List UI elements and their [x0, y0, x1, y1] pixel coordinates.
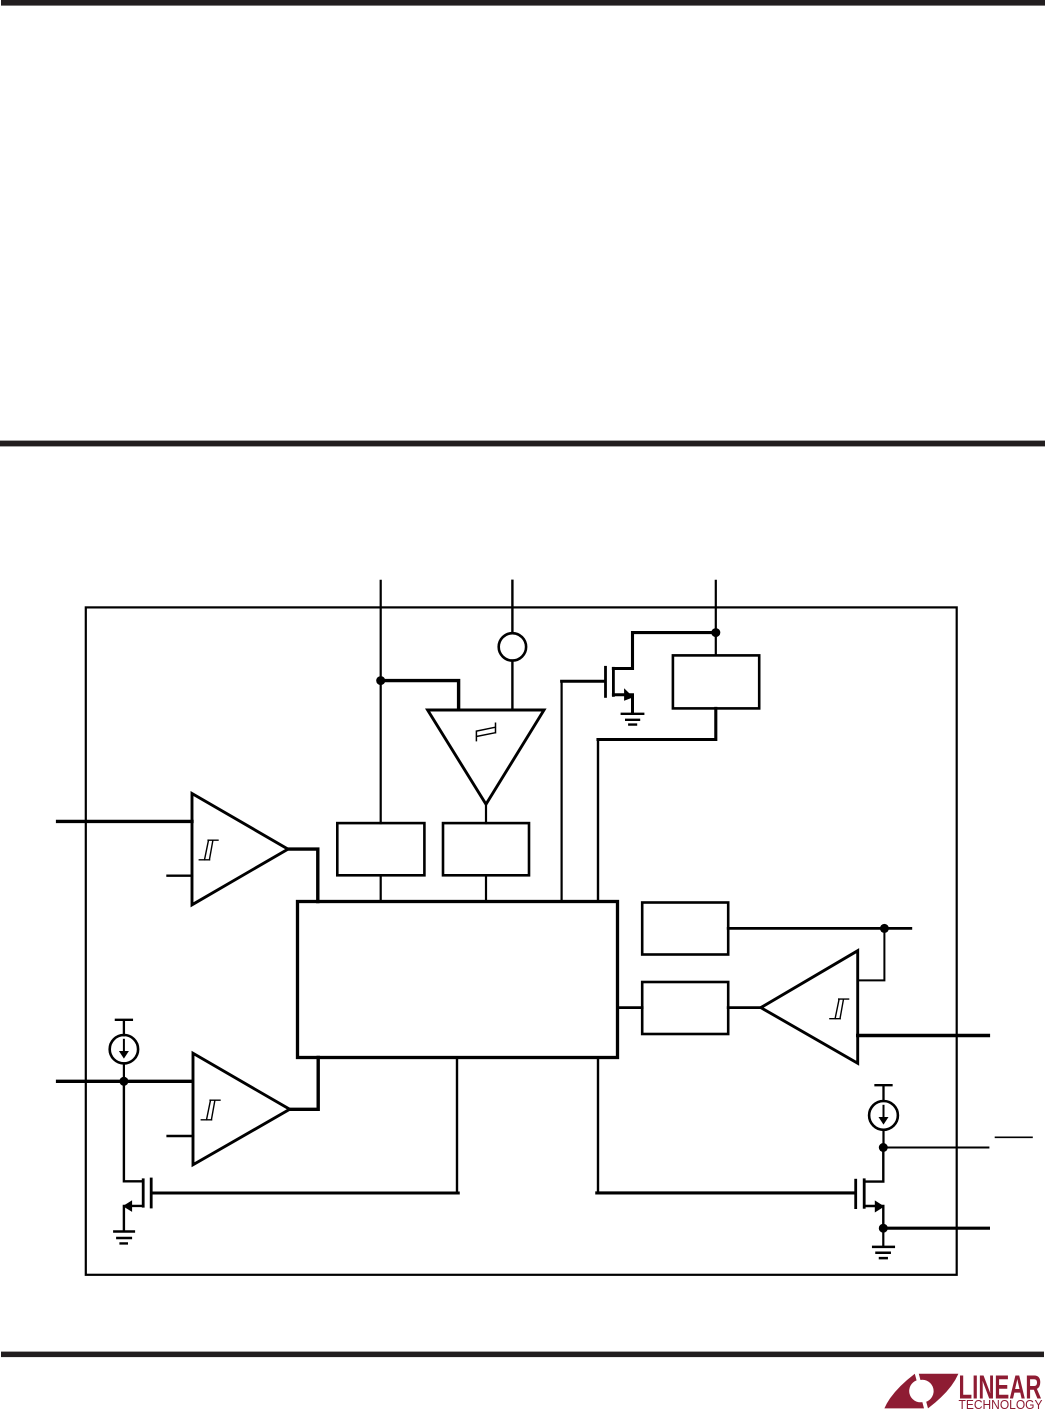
- wire: U1 output to logic box (thick): [288, 849, 318, 901]
- node: junction dot on left input net: [119, 1077, 128, 1086]
- wire: Q3 source to ground node: [864, 1206, 883, 1228]
- Q1 source arrow: [624, 688, 633, 701]
- node: junction dot I2/Q3 drain: [879, 1143, 888, 1152]
- ground (Q2 source): [114, 1232, 134, 1244]
- wire: Q2 gate lead from logic box (thick): [456, 1058, 458, 1194]
- transistor Q3 channel bar: [863, 1180, 866, 1208]
- block E (top-right box): [673, 655, 759, 708]
- transistor Q2 channel bar: [142, 1180, 145, 1206]
- wire: feedback from dot to comparator U2: [858, 928, 885, 980]
- Q2 source arrow: [123, 1200, 132, 1212]
- bias source circle on V+: [499, 633, 526, 660]
- wire: right input pin to U2 (thick): [858, 1034, 989, 1037]
- block C: [642, 903, 728, 955]
- svg-text:TECHNOLOGY: TECHNOLOGY: [959, 1398, 1044, 1410]
- transistor Q1 channel bar: [612, 668, 615, 695]
- wire: Q1 drain to pin-3 junction (thick): [613, 633, 715, 669]
- wire: logic box to Box D: [618, 1006, 643, 1009]
- wire: A1 output to Box B: [485, 804, 487, 823]
- wire: Q2 source to ground: [124, 1206, 143, 1231]
- wire: Q3 gate lead from logic box (thick): [597, 1058, 599, 1193]
- block D: [642, 982, 728, 1034]
- wire: Q1 gate lead from control net: [562, 680, 605, 683]
- transistor Q1 gate bar: [604, 667, 607, 696]
- comparator U2 (right Schmitt trigger, points left): [761, 951, 858, 1063]
- node: junction dot on pin-1 net: [376, 676, 385, 685]
- section divider rule: [0, 441, 1045, 447]
- wire: Q1 source to ground: [613, 695, 632, 713]
- node: junction dot Q3 source / pin: [879, 1224, 888, 1233]
- transistor Q2 gate bar: [150, 1179, 153, 1207]
- wire: node to right pin (thin): [883, 1147, 988, 1149]
- hysteresis symbol inside U3: [201, 1100, 220, 1120]
- wire: node down to ground: [882, 1228, 884, 1246]
- ground (Q3 source): [873, 1247, 894, 1258]
- block B: [443, 823, 529, 875]
- Q3 source arrow: [875, 1200, 885, 1212]
- wire: input pin to U1 + input (thick): [58, 820, 192, 823]
- op-amp A1 (inverting amplifier, points down): [428, 710, 544, 804]
- wire: junction dot to amplifier A1 input (thick): [381, 681, 459, 710]
- current source I2 arrow: [883, 1106, 885, 1118]
- wire: block E bottom to logic box (thick L): [598, 708, 716, 739]
- wire: Q1 gate net down to logic box: [560, 681, 562, 901]
- current source I2 circle: [869, 1101, 898, 1130]
- wire: input node down to Q2 drain: [124, 1081, 143, 1181]
- node: junction dot on pin-3 net: [711, 628, 720, 637]
- ramp symbol inside A1: [476, 723, 495, 740]
- Linear Technology logo mark (LT swoosh): [884, 1374, 958, 1409]
- wire: Box C output line (thick): [728, 927, 911, 930]
- central logic block: [298, 902, 618, 1058]
- wire: Box D to U2 output apex: [728, 1006, 761, 1009]
- wire: bias circle to amplifier A1 top: [511, 661, 513, 710]
- transistor Q3 gate bar: [854, 1180, 857, 1207]
- comparator U1 (upper-left Schmitt trigger): [192, 794, 288, 905]
- wire: node down to Q3 drain: [864, 1148, 883, 1182]
- wire: U1 inverting input stub: [168, 875, 193, 877]
- wire: Box B bottom to logic box: [485, 875, 487, 901]
- wire: I1 to input node: [123, 1063, 125, 1081]
- wire: down to logic box top: [597, 740, 599, 902]
- block A: [337, 823, 424, 875]
- current source I1 circle: [110, 1035, 138, 1063]
- overline mark for removed pin label: [996, 1136, 1033, 1138]
- block diagram outer boundary box: [86, 607, 957, 1274]
- wire: U3 output up to logic box (thick): [290, 1058, 319, 1110]
- node: junction dot on Box C output: [880, 924, 889, 933]
- wire: source node to right pin (thick): [883, 1227, 988, 1230]
- current source I1 arrow: [123, 1040, 125, 1052]
- wire: I2 to node: [882, 1130, 884, 1148]
- footer rule: [1, 1352, 1044, 1358]
- current source I2 top T-bar: [876, 1085, 892, 1101]
- comparator U3 (lower-left Schmitt trigger): [193, 1053, 290, 1165]
- hysteresis symbol inside U1: [199, 840, 218, 860]
- header rule (top black bar): [1, 0, 1045, 6]
- wire: left input pin to U3 + input (thick): [58, 1080, 193, 1083]
- wire: top pin 1 down through Box A to logic box: [380, 581, 382, 902]
- wire: top pin 3 down to block E: [715, 581, 717, 656]
- wire: top pin 2 (V+) down to bias circle: [511, 581, 513, 633]
- wire: U3 inverting input stub: [168, 1135, 193, 1137]
- current source I1 top T-bar: [116, 1020, 132, 1035]
- ground (Q1 source): [622, 714, 643, 725]
- hysteresis symbol inside U2: [830, 999, 849, 1019]
